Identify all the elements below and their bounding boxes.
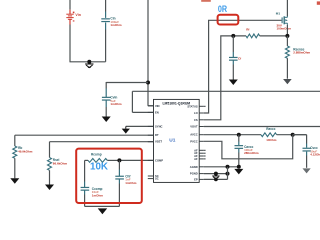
svg-text:M1: M1 (276, 11, 281, 15)
svg-text:280mOhm: 280mOhm (244, 151, 259, 155)
resistor Ravcc (261, 127, 307, 142)
node VIN junction (146, 81, 150, 85)
svg-text:100mOhm: 100mOhm (277, 26, 292, 30)
svg-text:AGND: AGND (190, 165, 198, 169)
resistor Rsense (285, 36, 310, 79)
svg-text:2.888mOhm: 2.888mOhm (293, 51, 310, 55)
wire (15, 134, 154, 136)
wire (131, 91, 133, 112)
svg-text:Rcomp: Rcomp (91, 152, 102, 156)
svg-text:COMP: COMP (155, 158, 163, 162)
ground (102, 117, 111, 123)
capacitor Cf (229, 34, 241, 80)
annotation box 0R (218, 15, 239, 25)
wire (286, 25, 288, 36)
resistor Rcomp (85, 152, 120, 162)
ground (303, 168, 311, 173)
node SW junction (285, 34, 289, 38)
wire (69, 25, 71, 62)
wire (204, 134, 261, 136)
wire (70, 61, 106, 63)
wire (204, 126, 320, 128)
wire (204, 178, 228, 180)
wire (69, 0, 71, 10)
svg-text:AVCC: AVCC (190, 133, 197, 137)
svg-text:AF: AF (194, 157, 198, 161)
svg-text:RT: RT (155, 133, 159, 137)
svg-text:86.6kOhm: 86.6kOhm (53, 162, 68, 166)
node AGND junction (226, 165, 230, 169)
wire (85, 205, 120, 207)
svg-text:1mOhm: 1mOhm (92, 193, 104, 197)
resistor Rsel (48, 142, 68, 185)
capacitor Cin (101, 0, 122, 30)
wire (147, 0, 149, 106)
svg-text:SYNC: SYNC (155, 124, 163, 128)
label fragment (201, 0, 211, 2)
wire (204, 173, 228, 175)
wire (105, 30, 107, 62)
capacitor Chf (115, 160, 136, 206)
svg-text:Cf: Cf (238, 57, 241, 61)
ground (283, 79, 292, 84)
node PGND junction (226, 172, 230, 176)
svg-text:10Ohm: 10Ohm (266, 138, 277, 142)
wire (204, 166, 239, 168)
svg-text:Ravcc: Ravcc (266, 127, 276, 131)
svg-text:PVCC: PVCC (190, 139, 198, 143)
svg-text:0R: 0R (218, 3, 227, 14)
wire (286, 0, 288, 16)
svg-text:1mOhm: 1mOhm (125, 181, 137, 185)
annotation 0R (218, 3, 227, 14)
voltage source Vin (66, 10, 81, 25)
wire (204, 20, 282, 113)
wire (204, 150, 206, 159)
ground (212, 172, 219, 182)
svg-text:PGND: PGND (190, 172, 198, 176)
svg-text:CS: CS (194, 118, 198, 122)
resistor Rf (246, 28, 287, 38)
svg-text:EP: EP (194, 177, 198, 181)
wire (50, 141, 154, 143)
svg-text:SC: SC (155, 177, 159, 181)
capacitor Cvin (102, 82, 122, 117)
svg-text:10K: 10K (90, 162, 108, 173)
op-amp U1 regulator IC (148, 99, 204, 182)
capacitor Cavcc (235, 133, 259, 167)
svg-text:U1: U1 (169, 138, 175, 144)
wire (132, 90, 320, 92)
svg-text:Vin: Vin (75, 13, 81, 17)
ground (45, 185, 54, 191)
svg-text:49.9kOhm: 49.9kOhm (18, 150, 33, 154)
wire (204, 135, 293, 159)
ground (229, 80, 238, 86)
resistor Rb (13, 135, 33, 178)
svg-text:1mOhm: 1mOhm (110, 102, 122, 106)
ground (234, 169, 243, 175)
ground (10, 178, 19, 184)
svg-text:VIN: VIN (155, 104, 160, 108)
label fragment (317, 1, 320, 4)
svg-text:1mOhm: 1mOhm (110, 23, 122, 27)
ground (85, 60, 93, 68)
annotation box (76, 149, 142, 203)
wire (106, 82, 148, 84)
svg-text:LM51601-Q1RUM: LM51601-Q1RUM (162, 101, 190, 105)
wire (227, 167, 229, 180)
wire (132, 111, 153, 113)
wire (126, 125, 154, 127)
svg-text:VSET: VSET (155, 140, 162, 144)
wire (119, 159, 153, 161)
transistor M1 (276, 11, 292, 30)
wire (148, 105, 154, 107)
wire (204, 105, 206, 107)
capacitor Ccomp (81, 160, 104, 206)
svg-text:VOUT: VOUT (190, 125, 198, 129)
capacitor Cvcc (293, 135, 320, 168)
svg-text:Rf: Rf (246, 28, 249, 32)
wire (204, 36, 246, 120)
svg-text:4.12Ohm: 4.12Ohm (310, 152, 320, 156)
node AVCC junction (291, 133, 295, 137)
ground (98, 208, 108, 214)
svg-text:STATUS: STATUS (187, 104, 198, 108)
node COMP junction (117, 158, 121, 162)
svg-text:LO: LO (194, 111, 198, 115)
node Cavcc gnd junction (237, 165, 241, 169)
annotation 10K (90, 162, 108, 173)
ground (122, 126, 130, 133)
svg-text:EN: EN (155, 110, 159, 114)
